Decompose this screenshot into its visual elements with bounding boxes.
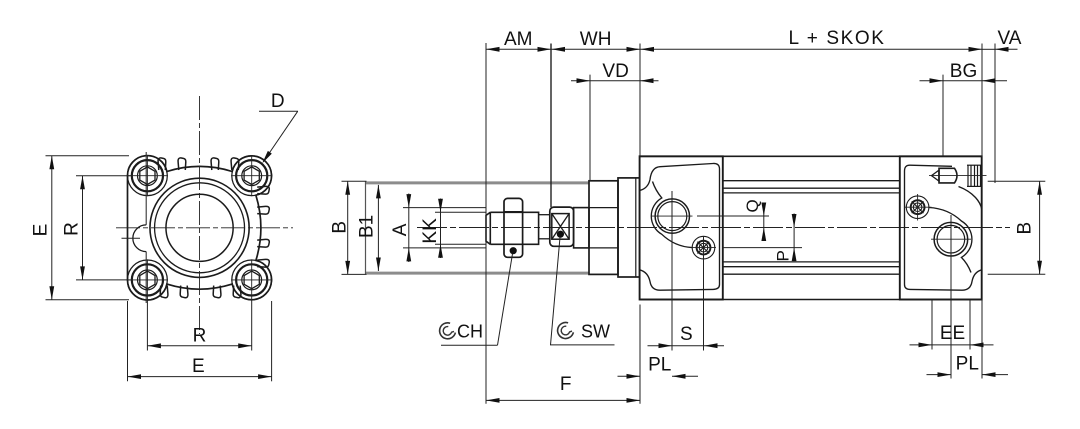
- dimension F: [486, 399, 640, 401]
- svg-text:Q: Q: [743, 199, 762, 212]
- svg-text:WH: WH: [580, 29, 612, 50]
- left view: bolt holes (4x screw D): [132, 160, 163, 191]
- piston rod thread KK: [486, 212, 539, 244]
- svg-text:A: A: [390, 223, 411, 236]
- dimension R vertical (left): [82, 176, 84, 280]
- svg-text:D: D: [271, 91, 285, 112]
- left view: flange circles (bore and pilot): [150, 178, 249, 277]
- front head contour around port: [651, 182, 692, 248]
- dimension PL (rear): [927, 374, 952, 376]
- barrel with tie rods: [640, 155, 982, 157]
- svg-text:E: E: [192, 356, 205, 377]
- dimension EE: [910, 344, 933, 346]
- rear head casting contour: [905, 165, 982, 290]
- dimension B (left): [347, 181, 349, 274]
- left view: corner boss circles: [127, 156, 167, 196]
- svg-text:BG: BG: [950, 61, 977, 82]
- side view: main centerline: [417, 226, 1010, 228]
- profile barrel section B x B1 (gray): [366, 181, 590, 184]
- svg-text:S: S: [680, 324, 693, 345]
- dimension L + SKOK: [640, 48, 982, 50]
- dimension S: [648, 345, 673, 347]
- svg-text:R: R: [193, 326, 207, 347]
- svg-text:R: R: [62, 222, 83, 236]
- rear head contour around port: [929, 208, 972, 273]
- dimension Q: [697, 215, 769, 217]
- svg-text:CH: CH: [457, 322, 483, 342]
- front spacer ring: [618, 178, 640, 277]
- dimension P: [723, 247, 802, 249]
- dimension R horizontal (bottom of left view): [147, 345, 251, 347]
- dimension VD: [571, 80, 590, 82]
- svg-text:KK: KK: [420, 218, 441, 244]
- svg-text:B1: B1: [357, 215, 378, 238]
- svg-text:AM: AM: [504, 29, 533, 50]
- svg-text:B: B: [1014, 222, 1035, 235]
- extension lines bottom front head: [671, 191, 673, 351]
- left view: main centerlines: [199, 96, 201, 334]
- dimension E vertical (left): [51, 156, 53, 300]
- front port (side view): [655, 199, 689, 233]
- front cushion screw: [692, 236, 715, 259]
- left view: profile outline with corner lobes: [127, 156, 271, 300]
- svg-text:L + SKOK: L + SKOK: [788, 28, 885, 49]
- rod gland boss: [589, 181, 618, 275]
- svg-text:VD: VD: [602, 61, 628, 82]
- extension lines bottom rear head: [931, 300, 933, 350]
- svg-text:SW: SW: [581, 321, 610, 341]
- label SW with wrench symbol and leader to flats: [558, 323, 574, 339]
- svg-text:P: P: [774, 250, 793, 261]
- rear cushion needle valve VA: [932, 170, 940, 181]
- dimension AM: [486, 48, 551, 50]
- left view: profile teeth: [158, 158, 166, 170]
- dimension KK: [440, 199, 442, 259]
- rear port (side view): [934, 222, 968, 256]
- dimension E horizontal (bottom of left view): [128, 376, 272, 378]
- left view: left face line with side port notch: [145, 152, 147, 225]
- rod nut (CH): [504, 198, 523, 257]
- svg-text:PL: PL: [648, 354, 671, 375]
- dimension B (right): [988, 180, 1046, 182]
- svg-text:B: B: [329, 221, 350, 234]
- svg-text:PL: PL: [956, 354, 979, 375]
- front head casting contour: [640, 163, 720, 290]
- dimension B1: [377, 185, 379, 271]
- front head body: [640, 156, 723, 299]
- rod wrench flats SW block: [550, 207, 574, 246]
- rear head body: [900, 156, 982, 299]
- extension lines top: [485, 43, 487, 404]
- label CH with wrench symbol and leader to nut: [440, 323, 456, 339]
- rear cushion screw: [906, 196, 929, 219]
- rod collar A: [574, 208, 589, 248]
- dimension PL (front): [618, 375, 641, 377]
- dimension WH: [551, 48, 640, 50]
- dimension A: [408, 194, 410, 263]
- svg-text:EE: EE: [940, 323, 965, 344]
- dimension BG: [920, 80, 944, 82]
- dimension VA: [982, 48, 995, 50]
- svg-text:F: F: [560, 374, 572, 395]
- svg-text:E: E: [31, 224, 52, 237]
- rear head contour valve swoosh: [959, 187, 982, 210]
- svg-text:VA: VA: [998, 28, 1022, 49]
- rod groove: [539, 214, 550, 216]
